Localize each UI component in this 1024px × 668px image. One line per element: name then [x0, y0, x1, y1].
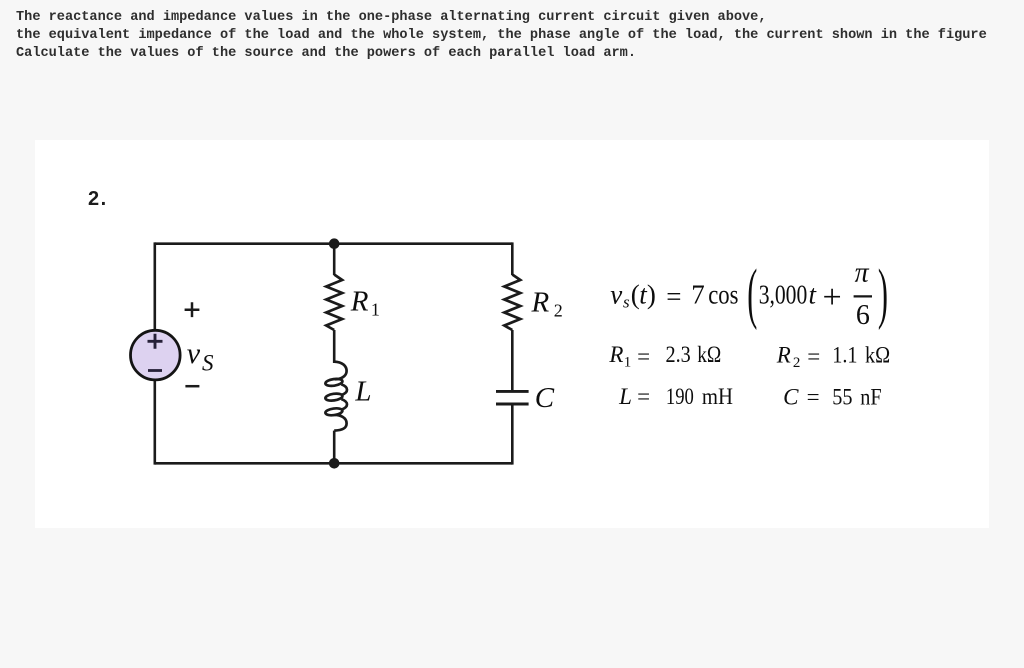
wire R1 to L: [333, 330, 336, 363]
svg-text:7: 7: [691, 280, 705, 310]
svg-text:2: 2: [554, 301, 563, 321]
resistor R2: [504, 275, 520, 331]
equation vs(t)=7cos(3,000t+pi/6): [610, 256, 888, 331]
svg-text:=: =: [807, 385, 820, 410]
label + polarity top: [185, 302, 200, 317]
svg-text:R: R: [776, 342, 791, 367]
svg-text:s: s: [623, 293, 630, 312]
resistor R1: [326, 275, 342, 331]
wire left lower: [154, 380, 157, 465]
svg-text:190: 190: [666, 383, 694, 409]
equation R2 = 1.1 kOhm: [776, 342, 890, 371]
svg-text:(: (: [747, 256, 757, 331]
equation C = 55 nF: [783, 384, 881, 409]
svg-text:v: v: [187, 337, 201, 370]
svg-text:t: t: [809, 280, 818, 310]
label R1: [350, 286, 380, 320]
node bottom junction: [329, 458, 340, 469]
wire bottom: [155, 462, 513, 465]
wire top right segment: [334, 242, 512, 245]
svg-text:S: S: [202, 350, 214, 375]
node top junction: [329, 238, 340, 249]
svg-text:+: +: [823, 279, 842, 316]
svg-text:2: 2: [793, 355, 801, 371]
svg-text:=: =: [637, 344, 650, 369]
svg-text:1: 1: [624, 355, 632, 371]
svg-text:π: π: [855, 257, 870, 288]
label vS: [187, 337, 214, 375]
svg-text:2.3: 2.3: [666, 342, 691, 367]
svg-text:R: R: [608, 342, 623, 367]
capacitor C: [496, 391, 529, 404]
wire R2 to C: [511, 330, 514, 390]
svg-text:L: L: [354, 375, 371, 407]
svg-text:=: =: [807, 344, 820, 369]
svg-text:): ): [878, 256, 888, 331]
svg-text:cos: cos: [708, 281, 738, 310]
equation L = 190 mH: [618, 383, 733, 409]
equation R1 = 2.3 kOhm: [608, 342, 721, 371]
svg-text:nF: nF: [860, 384, 881, 409]
svg-text:1: 1: [371, 300, 380, 320]
svg-text:L: L: [618, 384, 632, 409]
wire right stub top: [511, 242, 514, 275]
svg-text:v: v: [610, 280, 622, 310]
svg-text:kΩ: kΩ: [697, 342, 721, 368]
svg-text:1.1: 1.1: [832, 342, 857, 367]
svg-text:=: =: [666, 282, 681, 312]
svg-text:55: 55: [832, 384, 852, 409]
svg-text:mH: mH: [702, 384, 733, 409]
svg-text:3,000: 3,000: [759, 280, 808, 310]
voltage source VS: [131, 330, 181, 380]
wire top left segment: [155, 242, 334, 245]
svg-text:): ): [647, 280, 656, 310]
wire left upper: [154, 242, 157, 330]
svg-text:C: C: [783, 385, 799, 410]
svg-text:=: =: [637, 384, 650, 409]
wire middle stub top: [333, 244, 336, 275]
svg-text:C: C: [535, 382, 555, 414]
svg-text:6: 6: [856, 300, 870, 331]
wire C to bottom: [511, 405, 514, 464]
label R2: [531, 286, 563, 320]
svg-text:R: R: [531, 286, 550, 318]
svg-text:kΩ: kΩ: [865, 342, 890, 367]
svg-text:R: R: [350, 286, 369, 318]
inductor L: [325, 362, 347, 431]
label - polarity bottom: [185, 385, 199, 388]
wire L to bottom node: [333, 431, 336, 464]
